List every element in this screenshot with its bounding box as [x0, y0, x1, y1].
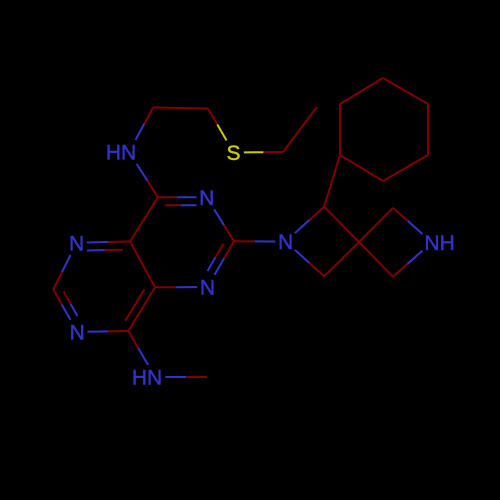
cyclohexane bond C4-C5 [427, 104, 429, 155]
azetidine bond N-CH2 [295, 250, 324, 276]
ring double bond C4=N5 [158, 197, 196, 205]
azetidine bond Cspiro-CH2 [359, 208, 393, 242]
azetidine bond N-CH [295, 207, 324, 233]
ring double bond N3'=C2' [53, 290, 77, 320]
svg-text:HN: HN [106, 142, 136, 165]
bond C4'-NH(amine) [128, 331, 148, 365]
bond NH-CH3 [165, 376, 207, 378]
bond CH2-CH3(ethyl) [283, 107, 317, 152]
bond CH2-S [208, 109, 227, 141]
ring bond C2'-N1' [53, 255, 70, 290]
bond NH-CH2 [136, 108, 154, 140]
cyclohexane bond C1-C2 [339, 104, 341, 155]
bond S-CH2(ethyl) [244, 151, 283, 153]
ring bond N7-C4a [155, 286, 197, 288]
ring double bond N1'=C8a [87, 242, 130, 251]
ring double bond C6=N7 [208, 241, 234, 275]
cyclohexane bond C3-C4 [383, 78, 428, 104]
svg-text:S: S [226, 142, 240, 165]
svg-text:N: N [69, 233, 84, 256]
ring bond N5-C6 [214, 209, 234, 241]
svg-text:N: N [70, 322, 85, 345]
bond CH2-CH2 [153, 108, 208, 109]
bond C4-NH(amine) [137, 164, 158, 197]
azetidine bond CH2-Cspiro [324, 242, 359, 276]
bond C6-N(azetidine) [234, 240, 275, 242]
svg-text:N: N [278, 231, 293, 254]
svg-text:N: N [199, 187, 214, 210]
svg-text:HN: HN [132, 367, 162, 390]
cyclohexane bond C5-C6 [383, 155, 428, 181]
svg-text:N: N [200, 277, 215, 300]
bond azetidine CH-cyclohexyl [324, 155, 340, 207]
svg-text:NH: NH [424, 232, 454, 255]
cyclohexane bond C2-C3 [340, 78, 383, 104]
azetidine bond Cspiro-CH2 [359, 242, 393, 277]
ring bond C8a-C4 [130, 197, 158, 241]
azetidine bond CH2-NH [393, 251, 423, 277]
azetidine bond CH-Cspiro [324, 207, 359, 242]
cyclohexane bond C6-C1 [340, 155, 383, 181]
azetidine bond CH2-NH [393, 208, 423, 234]
ring fusion bond C8a-C4a [130, 242, 155, 288]
ring bond C4'-N3' [88, 330, 129, 333]
ring double bond C4a=C4' [125, 287, 155, 331]
